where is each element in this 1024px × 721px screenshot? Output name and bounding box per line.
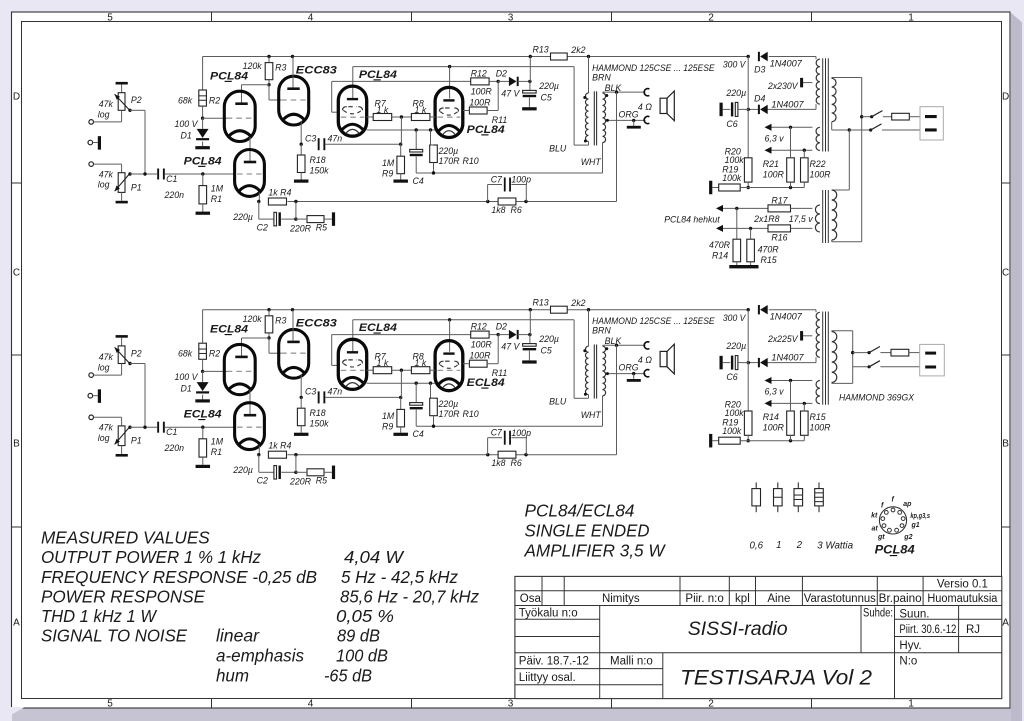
svg-text:100R: 100R xyxy=(469,98,491,108)
svg-text:R5: R5 xyxy=(316,476,327,486)
svg-text:5 Hz - 42,5 kHz: 5 Hz - 42,5 kHz xyxy=(341,567,458,587)
svg-text:2x225V: 2x225V xyxy=(767,334,798,344)
svg-text:4,04 W: 4,04 W xyxy=(344,547,405,567)
svg-text:RJ: RJ xyxy=(966,624,980,636)
svg-text:log: log xyxy=(98,363,110,373)
svg-text:100R: 100R xyxy=(810,170,832,180)
svg-text:Varastotunnus: Varastotunnus xyxy=(804,593,876,605)
svg-text:P1: P1 xyxy=(131,436,142,446)
svg-text:0,05 %: 0,05 % xyxy=(336,606,394,626)
svg-text:220n: 220n xyxy=(164,443,185,453)
svg-text:HAMMOND 125CSE ... 125ESE: HAMMOND 125CSE ... 125ESE xyxy=(592,63,715,73)
svg-text:C1: C1 xyxy=(166,427,177,437)
svg-text:2: 2 xyxy=(796,540,803,551)
svg-text:220n: 220n xyxy=(164,190,185,200)
svg-text:150k: 150k xyxy=(310,419,330,429)
svg-text:Piirt. 30.6.-12: Piirt. 30.6.-12 xyxy=(899,624,956,636)
svg-text:R3: R3 xyxy=(275,63,286,73)
svg-text:C5: C5 xyxy=(541,346,552,356)
svg-text:D: D xyxy=(1002,92,1009,103)
svg-text:kt: kt xyxy=(871,512,878,519)
svg-text:1M: 1M xyxy=(211,183,224,193)
svg-text:BRN: BRN xyxy=(592,326,611,336)
svg-text:5: 5 xyxy=(107,699,113,710)
svg-text:R9: R9 xyxy=(382,169,393,179)
svg-text:1 k: 1 k xyxy=(415,358,427,368)
svg-text:4: 4 xyxy=(308,699,314,710)
svg-text:470R: 470R xyxy=(709,240,731,250)
svg-text:68k: 68k xyxy=(178,95,193,105)
svg-text:R6: R6 xyxy=(511,205,522,215)
svg-text:BLU: BLU xyxy=(549,397,567,407)
svg-text:C2: C2 xyxy=(257,223,268,233)
svg-text:170R: 170R xyxy=(439,156,461,166)
svg-text:100R: 100R xyxy=(763,423,785,433)
svg-text:R12: R12 xyxy=(471,69,487,79)
svg-text:470R: 470R xyxy=(758,245,780,255)
svg-text:D2: D2 xyxy=(496,69,507,79)
svg-text:300 V: 300 V xyxy=(723,60,746,70)
svg-text:D2: D2 xyxy=(496,322,507,332)
svg-text:R18: R18 xyxy=(310,408,326,418)
svg-text:220µ: 220µ xyxy=(232,212,253,222)
svg-text:2: 2 xyxy=(708,699,714,710)
svg-text:A: A xyxy=(1002,618,1009,629)
svg-text:ORG: ORG xyxy=(619,363,639,373)
svg-text:6,3 v: 6,3 v xyxy=(765,387,785,397)
svg-text:Suun.: Suun. xyxy=(899,608,929,620)
svg-text:ECL84: ECL84 xyxy=(184,409,222,421)
svg-text:PCL84: PCL84 xyxy=(875,545,916,557)
svg-text:PCL84/ECL84: PCL84/ECL84 xyxy=(525,501,635,521)
svg-text:100p: 100p xyxy=(511,428,531,438)
svg-text:PCL84: PCL84 xyxy=(184,156,222,168)
svg-text:47k: 47k xyxy=(99,99,114,109)
svg-text:PCL84: PCL84 xyxy=(210,71,248,83)
svg-text:R10: R10 xyxy=(463,156,479,166)
svg-text:220µ: 220µ xyxy=(725,88,746,98)
svg-text:AMPLIFIER 3,5 W: AMPLIFIER 3,5 W xyxy=(524,541,667,561)
svg-text:Päiv. 18.7.-12: Päiv. 18.7.-12 xyxy=(519,655,589,667)
svg-text:150k: 150k xyxy=(310,166,330,176)
svg-text:300 V: 300 V xyxy=(723,313,746,323)
svg-text:68k: 68k xyxy=(178,349,193,359)
svg-text:R3: R3 xyxy=(275,316,286,326)
svg-text:D4: D4 xyxy=(754,94,765,104)
svg-text:R12: R12 xyxy=(471,322,487,332)
svg-text:BLU: BLU xyxy=(549,144,567,154)
svg-text:100k: 100k xyxy=(722,173,742,183)
svg-text:SISSI-radio: SISSI-radio xyxy=(688,618,788,640)
svg-text:C: C xyxy=(13,268,20,279)
svg-text:1N4007: 1N4007 xyxy=(770,59,803,69)
svg-text:R17: R17 xyxy=(771,196,788,206)
svg-text:R18: R18 xyxy=(310,155,326,165)
svg-text:ap: ap xyxy=(903,501,912,508)
svg-text:B: B xyxy=(1002,439,1009,450)
svg-text:C4: C4 xyxy=(413,429,424,439)
svg-text:D: D xyxy=(13,92,20,103)
svg-text:Huomautuksia: Huomautuksia xyxy=(927,593,998,605)
svg-text:220µ: 220µ xyxy=(438,399,459,409)
svg-text:OUTPUT POWER 1 % 1 kHz: OUTPUT POWER 1 % 1 kHz xyxy=(41,547,261,567)
svg-text:C5: C5 xyxy=(541,93,552,103)
svg-text:1k R4: 1k R4 xyxy=(268,441,291,451)
svg-text:1k R4: 1k R4 xyxy=(268,188,291,198)
svg-text:WHT: WHT xyxy=(581,410,602,420)
svg-text:47k: 47k xyxy=(99,352,114,362)
svg-text:Versio 0.1: Versio 0.1 xyxy=(937,579,988,591)
svg-text:100 V: 100 V xyxy=(175,372,199,382)
svg-text:hum: hum xyxy=(216,666,249,686)
svg-text:linear: linear xyxy=(216,626,260,646)
svg-text:P1: P1 xyxy=(131,182,142,192)
svg-text:R15: R15 xyxy=(810,412,826,422)
svg-text:A: A xyxy=(13,618,20,629)
svg-text:100R: 100R xyxy=(471,87,493,97)
svg-text:Hyv.: Hyv. xyxy=(899,640,921,652)
svg-text:R1: R1 xyxy=(211,447,222,457)
svg-text:Nimitys: Nimitys xyxy=(602,593,640,605)
svg-text:P2: P2 xyxy=(131,95,142,105)
svg-text:ECL84: ECL84 xyxy=(210,324,248,336)
svg-text:1k8: 1k8 xyxy=(491,458,505,468)
svg-text:47k: 47k xyxy=(99,169,114,179)
svg-text:C3: C3 xyxy=(305,134,316,144)
svg-text:220R: 220R xyxy=(289,224,312,234)
svg-text:120k: 120k xyxy=(243,61,263,71)
svg-text:R10: R10 xyxy=(463,409,479,419)
svg-text:g2: g2 xyxy=(903,534,912,541)
svg-text:120k: 120k xyxy=(243,314,263,324)
svg-text:1M: 1M xyxy=(382,411,395,421)
svg-text:47 V: 47 V xyxy=(501,89,520,99)
svg-text:2k2: 2k2 xyxy=(570,298,585,308)
svg-text:TESTISARJA Vol 2: TESTISARJA Vol 2 xyxy=(680,666,872,689)
svg-text:Suhde:: Suhde: xyxy=(863,607,893,619)
svg-text:C7: C7 xyxy=(491,428,503,438)
svg-text:C7: C7 xyxy=(491,174,503,184)
svg-text:4: 4 xyxy=(308,12,314,23)
svg-text:Piir. n:o: Piir. n:o xyxy=(685,593,723,605)
svg-text:R22: R22 xyxy=(810,159,826,169)
svg-text:C6: C6 xyxy=(726,372,737,382)
svg-text:kpl: kpl xyxy=(735,593,750,605)
svg-text:1: 1 xyxy=(776,540,781,551)
svg-text:100k: 100k xyxy=(725,155,745,165)
svg-text:HAMMOND 125CSE ... 125ESE: HAMMOND 125CSE ... 125ESE xyxy=(592,316,715,326)
svg-text:C3: C3 xyxy=(305,387,316,397)
svg-text:R1: R1 xyxy=(211,194,222,204)
svg-text:R16: R16 xyxy=(771,233,787,243)
svg-text:220µ: 220µ xyxy=(538,334,559,344)
svg-text:N:o: N:o xyxy=(899,655,917,667)
svg-text:C1: C1 xyxy=(166,174,177,184)
svg-text:Osa: Osa xyxy=(520,593,542,605)
svg-text:89 dB: 89 dB xyxy=(337,626,380,646)
svg-text:6,3 v: 6,3 v xyxy=(765,134,785,144)
svg-text:Br.paino: Br.paino xyxy=(879,593,922,605)
svg-text:R2: R2 xyxy=(209,95,220,105)
svg-text:4 Ω: 4 Ω xyxy=(638,355,652,365)
svg-text:100 V: 100 V xyxy=(175,119,199,129)
svg-text:100k: 100k xyxy=(722,426,742,436)
svg-text:2x1R8: 2x1R8 xyxy=(753,214,780,224)
svg-text:ECL84: ECL84 xyxy=(467,377,505,389)
svg-text:R9: R9 xyxy=(382,422,393,432)
svg-text:ECC83: ECC83 xyxy=(296,318,337,330)
svg-text:kp,g3,s: kp,g3,s xyxy=(910,513,930,520)
svg-text:2x230V: 2x230V xyxy=(767,81,798,91)
svg-text:47n: 47n xyxy=(328,387,343,397)
svg-text:1M: 1M xyxy=(211,437,224,447)
svg-text:3 Wattia: 3 Wattia xyxy=(817,541,854,552)
svg-text:P2: P2 xyxy=(131,348,142,358)
svg-text:1k8: 1k8 xyxy=(491,205,505,215)
svg-text:220R: 220R xyxy=(289,477,312,487)
svg-text:0,6: 0,6 xyxy=(750,541,764,552)
svg-text:1: 1 xyxy=(908,699,914,710)
svg-text:2k2: 2k2 xyxy=(570,45,585,55)
svg-text:R21: R21 xyxy=(763,159,779,169)
svg-text:4 Ω: 4 Ω xyxy=(638,102,652,112)
svg-text:1N4007: 1N4007 xyxy=(771,100,804,110)
svg-text:Liittyy osal.: Liittyy osal. xyxy=(519,672,576,684)
svg-text:MEASURED VALUES: MEASURED VALUES xyxy=(41,528,210,548)
svg-text:100k: 100k xyxy=(725,408,745,418)
svg-text:47n: 47n xyxy=(328,134,343,144)
svg-text:BLK: BLK xyxy=(605,83,623,93)
svg-text:at: at xyxy=(872,526,879,533)
svg-text:WHT: WHT xyxy=(581,157,602,167)
svg-text:g1: g1 xyxy=(911,522,920,529)
svg-text:C6: C6 xyxy=(726,119,737,129)
svg-text:log: log xyxy=(98,433,110,443)
svg-text:Aine: Aine xyxy=(767,593,790,605)
svg-text:100R: 100R xyxy=(469,351,491,361)
svg-text:-65 dB: -65 dB xyxy=(324,666,372,686)
svg-text:f: f xyxy=(881,503,884,510)
svg-text:R5: R5 xyxy=(316,223,327,233)
svg-text:f: f xyxy=(892,497,895,504)
svg-text:D1: D1 xyxy=(181,131,192,141)
svg-text:a-emphasis: a-emphasis xyxy=(216,646,304,666)
svg-text:R13: R13 xyxy=(533,298,549,308)
svg-text:170R: 170R xyxy=(439,409,461,419)
svg-text:Malli n:o: Malli n:o xyxy=(610,655,653,667)
svg-text:D3: D3 xyxy=(754,65,765,75)
svg-text:100R: 100R xyxy=(763,170,785,180)
svg-text:1N4007: 1N4007 xyxy=(771,353,804,363)
svg-text:R2: R2 xyxy=(209,349,220,359)
svg-text:SINGLE ENDED: SINGLE ENDED xyxy=(525,521,650,541)
svg-text:1 k: 1 k xyxy=(415,105,427,115)
svg-text:5: 5 xyxy=(107,12,113,23)
svg-text:85,6 Hz - 20,7 kHz: 85,6 Hz - 20,7 kHz xyxy=(340,587,479,607)
svg-text:HAMMOND 369GX: HAMMOND 369GX xyxy=(839,392,915,402)
svg-text:R14: R14 xyxy=(712,251,728,261)
svg-text:220µ: 220µ xyxy=(538,81,559,91)
svg-text:17,5 v: 17,5 v xyxy=(789,214,814,224)
svg-text:3: 3 xyxy=(508,12,514,23)
svg-text:PCL84: PCL84 xyxy=(467,124,505,136)
svg-text:100R: 100R xyxy=(810,423,832,433)
svg-text:220µ: 220µ xyxy=(232,465,253,475)
svg-text:100 dB: 100 dB xyxy=(336,646,388,666)
svg-text:220µ: 220µ xyxy=(438,146,459,156)
svg-text:FREQUENCY RESPONSE -0,25 dB: FREQUENCY RESPONSE -0,25 dB xyxy=(41,567,317,587)
svg-text:ORG: ORG xyxy=(619,110,639,120)
svg-text:47 V: 47 V xyxy=(501,342,520,352)
svg-text:PCL84: PCL84 xyxy=(359,69,397,81)
svg-text:100R: 100R xyxy=(471,340,493,350)
svg-text:220µ: 220µ xyxy=(725,341,746,351)
svg-text:ECL84: ECL84 xyxy=(359,322,397,334)
svg-text:log: log xyxy=(98,109,110,119)
svg-text:1 k: 1 k xyxy=(377,358,389,368)
svg-text:1 k: 1 k xyxy=(377,105,389,115)
svg-text:C: C xyxy=(1002,268,1009,279)
svg-text:C2: C2 xyxy=(257,476,268,486)
svg-text:B: B xyxy=(13,439,20,450)
svg-text:gt: gt xyxy=(877,534,885,541)
svg-text:POWER RESPONSE: POWER RESPONSE xyxy=(41,587,205,607)
svg-text:3: 3 xyxy=(508,699,514,710)
svg-text:R6: R6 xyxy=(511,458,522,468)
svg-text:C4: C4 xyxy=(413,176,424,186)
svg-text:Työkalu n:o: Työkalu n:o xyxy=(519,608,578,620)
svg-text:2: 2 xyxy=(708,12,714,23)
svg-text:ECC83: ECC83 xyxy=(296,65,337,77)
svg-text:BLK: BLK xyxy=(605,336,623,346)
svg-text:SIGNAL TO NOISE: SIGNAL TO NOISE xyxy=(41,626,187,646)
svg-text:1N4007: 1N4007 xyxy=(770,312,803,322)
svg-text:PCL84 hehkut: PCL84 hehkut xyxy=(664,215,720,225)
svg-text:1: 1 xyxy=(908,12,914,23)
svg-text:R15: R15 xyxy=(761,255,777,265)
svg-text:100p: 100p xyxy=(511,175,531,185)
svg-text:log: log xyxy=(98,180,110,190)
svg-text:R13: R13 xyxy=(533,45,549,55)
svg-text:BRN: BRN xyxy=(592,73,611,83)
svg-text:R14: R14 xyxy=(763,412,779,422)
svg-text:47k: 47k xyxy=(99,423,114,433)
svg-text:D1: D1 xyxy=(181,384,192,394)
svg-text:THD 1 kHz 1 W: THD 1 kHz 1 W xyxy=(41,606,158,626)
svg-text:1M: 1M xyxy=(382,158,395,168)
